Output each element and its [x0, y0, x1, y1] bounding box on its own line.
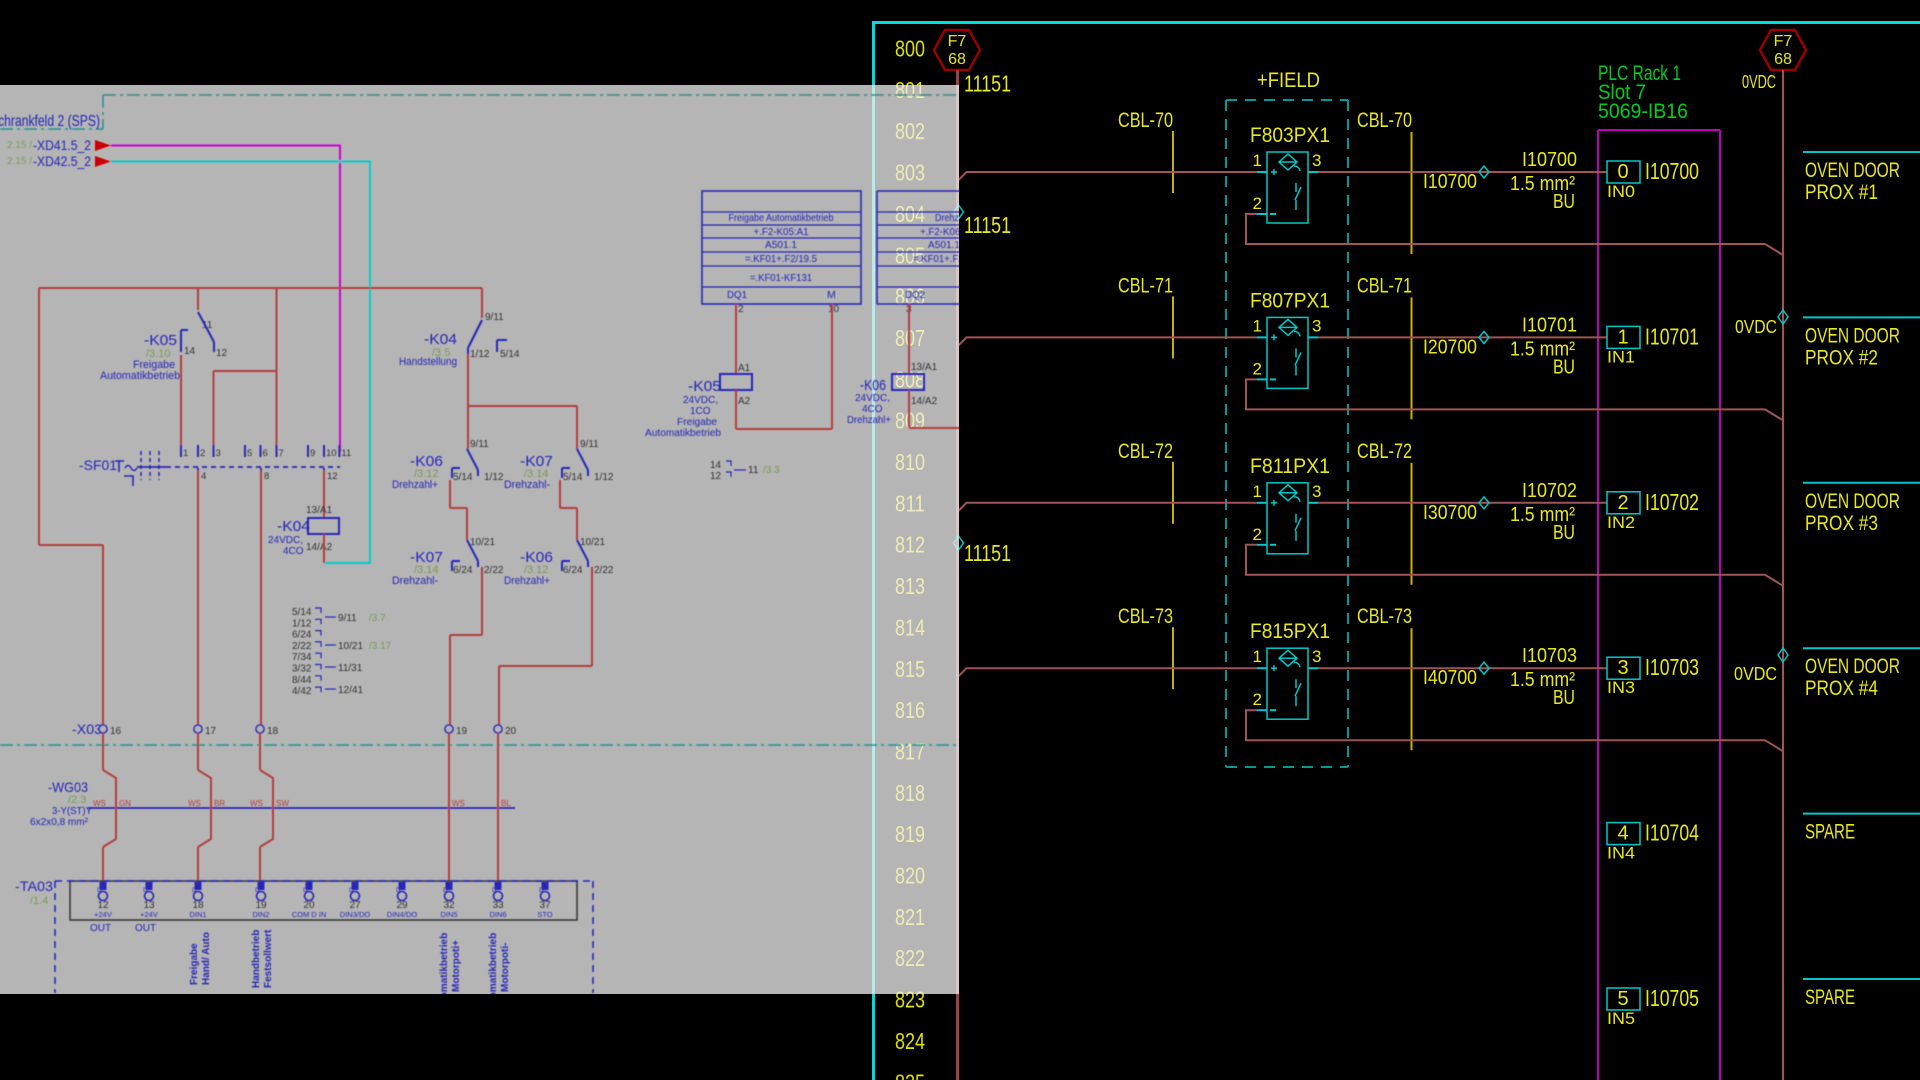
svg-text:I20700: I20700 [1423, 336, 1477, 358]
svg-text:20: 20 [505, 726, 517, 737]
svg-text:800: 800 [895, 36, 925, 62]
svg-text:I40700: I40700 [1423, 667, 1477, 689]
svg-text:/3.7: /3.7 [369, 613, 386, 624]
svg-text:-K06: -K06 [860, 377, 886, 394]
svg-text:F811PX1: F811PX1 [1250, 455, 1330, 478]
svg-text:19: 19 [456, 726, 468, 737]
svg-text:SW: SW [276, 799, 289, 808]
svg-text:1: 1 [1253, 316, 1262, 335]
svg-text:824: 824 [895, 1028, 925, 1054]
svg-text:Automatikbetrieb: Automatikbetrieb [100, 370, 180, 382]
svg-text:8: 8 [264, 471, 269, 482]
svg-text:I10703: I10703 [1645, 654, 1699, 680]
svg-text:11: 11 [341, 448, 351, 459]
svg-text:I10705: I10705 [1645, 985, 1699, 1011]
svg-text:11/31: 11/31 [338, 663, 363, 674]
svg-text:8/44: 8/44 [292, 675, 312, 686]
svg-text:11151: 11151 [964, 71, 1011, 97]
svg-text:9/11: 9/11 [580, 439, 599, 450]
svg-text:Freigabe: Freigabe [189, 943, 200, 985]
svg-text:Drehzahl-: Drehzahl- [504, 479, 550, 491]
svg-text:14/A2: 14/A2 [306, 542, 333, 553]
svg-text:I10700: I10700 [1522, 149, 1577, 171]
svg-text:D: D [349, 888, 354, 894]
svg-text:-WG03: -WG03 [48, 779, 88, 795]
svg-text:12/41: 12/41 [338, 685, 363, 696]
svg-text:CBL-72: CBL-72 [1357, 440, 1412, 463]
svg-text:2.15 /: 2.15 / [7, 156, 32, 167]
svg-text:Hand/ Auto: Hand/ Auto [201, 932, 212, 985]
svg-text:17: 17 [205, 726, 217, 737]
svg-text:D: D [97, 888, 102, 894]
svg-text:CBL-71: CBL-71 [1357, 274, 1412, 297]
svg-text:D: D [443, 888, 448, 894]
svg-text:BU: BU [1553, 522, 1575, 544]
svg-text:DIN4/DO: DIN4/DO [387, 910, 418, 919]
svg-text:WS: WS [188, 799, 201, 808]
svg-text:12: 12 [216, 348, 228, 359]
svg-text:-XD41.5_2: -XD41.5_2 [33, 137, 91, 153]
svg-text:I10702: I10702 [1522, 480, 1577, 502]
svg-text:F7: F7 [948, 33, 967, 50]
svg-text:2: 2 [1253, 359, 1262, 378]
svg-text:CBL-71: CBL-71 [1118, 274, 1173, 297]
svg-text:+FIELD: +FIELD [1257, 69, 1320, 92]
svg-text:0VDC: 0VDC [1735, 317, 1777, 337]
svg-text:16: 16 [110, 726, 122, 737]
svg-text:11: 11 [748, 465, 759, 476]
svg-text:1: 1 [183, 448, 188, 459]
svg-text:OVEN DOOR: OVEN DOOR [1805, 324, 1900, 347]
svg-text:F7: F7 [1774, 33, 1793, 50]
svg-text:/1.4: /1.4 [30, 895, 48, 907]
svg-text:OVEN DOOR: OVEN DOOR [1805, 655, 1900, 678]
svg-text:DIN6: DIN6 [489, 910, 506, 919]
svg-text:Drehzahl+: Drehzahl+ [392, 479, 438, 491]
svg-text:2.15 /: 2.15 / [7, 140, 32, 151]
svg-text:=.KF01-KF131: =.KF01-KF131 [750, 272, 812, 284]
svg-text:14/A2: 14/A2 [911, 396, 938, 407]
svg-text:-X03: -X03 [72, 721, 102, 737]
svg-text:68: 68 [948, 51, 966, 68]
svg-text:D: D [396, 888, 401, 894]
svg-text:3/32: 3/32 [292, 664, 312, 675]
svg-text:12: 12 [710, 471, 722, 482]
svg-text:DQ2: DQ2 [905, 289, 925, 301]
svg-text:M: M [827, 289, 836, 301]
svg-text:DIN1: DIN1 [189, 910, 206, 919]
svg-text:7: 7 [279, 448, 284, 459]
svg-text:24VDC,: 24VDC, [855, 393, 890, 404]
svg-text:schrankfeld 2 (SPS): schrankfeld 2 (SPS) [0, 113, 100, 130]
svg-text:2: 2 [738, 304, 744, 315]
svg-text:CBL-70: CBL-70 [1118, 109, 1173, 132]
svg-text:I10704: I10704 [1645, 820, 1699, 846]
svg-text:1CO: 1CO [690, 406, 711, 417]
svg-text:14: 14 [184, 346, 196, 357]
svg-text:10/21: 10/21 [338, 641, 363, 652]
svg-text:3: 3 [216, 448, 221, 459]
svg-text:24VDC,: 24VDC, [268, 535, 303, 546]
svg-text:2/22: 2/22 [484, 565, 504, 576]
svg-text:5069-IB16: 5069-IB16 [1598, 100, 1688, 123]
svg-text:SPARE: SPARE [1805, 821, 1855, 844]
svg-text:1: 1 [1617, 326, 1628, 348]
svg-text:3-Y(ST)Y: 3-Y(ST)Y [52, 806, 92, 817]
svg-text:1/12: 1/12 [470, 349, 490, 360]
svg-text:D: D [255, 888, 260, 894]
svg-text:IN4: IN4 [1607, 844, 1635, 863]
svg-text:5/14: 5/14 [563, 472, 583, 483]
svg-text:CBL-72: CBL-72 [1118, 440, 1173, 463]
svg-text:6/24: 6/24 [563, 565, 583, 576]
svg-text:-K04: -K04 [424, 331, 457, 348]
svg-text:5/14: 5/14 [500, 349, 520, 360]
svg-text:D: D [143, 888, 148, 894]
svg-text:PROX #2: PROX #2 [1805, 346, 1878, 369]
svg-text:0VDC: 0VDC [1742, 72, 1776, 92]
svg-text:14: 14 [710, 460, 722, 471]
svg-text:5/14: 5/14 [453, 472, 473, 483]
svg-text:68: 68 [1774, 51, 1792, 68]
svg-text:I10700: I10700 [1645, 158, 1699, 184]
svg-text:OUT: OUT [135, 923, 156, 934]
svg-text:1: 1 [1253, 482, 1262, 501]
svg-text:13/A1: 13/A1 [306, 505, 333, 516]
svg-text:I10702: I10702 [1645, 489, 1699, 515]
svg-text:11151: 11151 [964, 540, 1011, 566]
svg-text:D: D [492, 888, 497, 894]
svg-text:Motorpoti+: Motorpoti+ [451, 940, 462, 992]
svg-text:Festsollwert: Festsollwert [263, 929, 274, 988]
svg-text:PROX #4: PROX #4 [1805, 677, 1878, 700]
svg-text:5: 5 [247, 448, 252, 459]
svg-text:3: 3 [1312, 316, 1321, 335]
svg-text:-XD42.5_2: -XD42.5_2 [33, 153, 91, 169]
svg-text:4CO: 4CO [862, 404, 883, 415]
svg-text:WS: WS [452, 799, 465, 808]
svg-text:OVEN DOOR: OVEN DOOR [1805, 159, 1900, 182]
svg-text:6/24: 6/24 [453, 565, 473, 576]
svg-text:STO: STO [537, 910, 552, 919]
svg-text:I10701: I10701 [1522, 314, 1577, 336]
svg-text:/3.17: /3.17 [369, 641, 392, 652]
svg-text:A2: A2 [738, 396, 751, 407]
svg-text:A1: A1 [738, 363, 751, 374]
svg-text:7/34: 7/34 [292, 652, 312, 663]
svg-text:Drehzahl+: Drehzahl+ [504, 575, 550, 587]
svg-text:Drehzahl+: Drehzahl+ [847, 415, 891, 426]
svg-text:F807PX1: F807PX1 [1250, 289, 1330, 312]
svg-text:Handbetrieb: Handbetrieb [251, 930, 262, 988]
svg-text:I30700: I30700 [1423, 502, 1477, 524]
svg-text:6x2x0,8 mm²: 6x2x0,8 mm² [30, 817, 89, 828]
svg-text:DIN3/DO: DIN3/DO [340, 910, 371, 919]
svg-text:4: 4 [201, 471, 206, 482]
svg-text:IN1: IN1 [1607, 347, 1635, 366]
svg-text:BU: BU [1553, 687, 1575, 709]
svg-text:A501.1: A501.1 [928, 239, 960, 251]
svg-text:2: 2 [1253, 525, 1262, 544]
svg-text:D: D [303, 888, 308, 894]
svg-text:18: 18 [267, 726, 279, 737]
svg-text:OVEN DOOR: OVEN DOOR [1805, 490, 1900, 513]
svg-text:10/21: 10/21 [470, 537, 495, 548]
svg-text:A501.1: A501.1 [765, 239, 797, 251]
svg-text:12: 12 [327, 471, 338, 482]
svg-text:F803PX1: F803PX1 [1250, 124, 1330, 147]
svg-text:2: 2 [1617, 492, 1628, 514]
svg-text:24VDC,: 24VDC, [683, 395, 718, 406]
svg-text:9/11: 9/11 [485, 312, 504, 323]
svg-text:1/12: 1/12 [292, 618, 312, 629]
svg-text:2: 2 [1253, 690, 1262, 709]
svg-text:GN: GN [119, 799, 131, 808]
svg-text:1/12: 1/12 [594, 472, 614, 483]
svg-text:-TA03: -TA03 [15, 878, 53, 894]
svg-text:1: 1 [1253, 647, 1262, 666]
svg-text:11151: 11151 [964, 212, 1011, 238]
svg-text:-K04: -K04 [277, 518, 310, 535]
svg-text:SPARE: SPARE [1805, 986, 1855, 1009]
svg-text:1/12: 1/12 [484, 472, 504, 483]
svg-text:5/14: 5/14 [292, 607, 312, 618]
svg-text:Freigabe Automatikbetrieb: Freigabe Automatikbetrieb [729, 212, 834, 224]
svg-text:I10700: I10700 [1423, 171, 1477, 193]
svg-text:D: D [192, 888, 197, 894]
svg-text:Handstellung: Handstellung [399, 356, 457, 368]
svg-text:2/22: 2/22 [594, 565, 614, 576]
svg-text:0: 0 [1617, 161, 1628, 183]
svg-text:3: 3 [1312, 482, 1321, 501]
svg-text:BU: BU [1553, 191, 1575, 213]
svg-text:IN0: IN0 [1607, 182, 1635, 201]
svg-text:BR: BR [214, 799, 225, 808]
svg-text:2: 2 [200, 448, 205, 459]
svg-text:Motorpoti-: Motorpoti- [500, 943, 511, 992]
svg-text:DIN2: DIN2 [252, 910, 269, 919]
svg-text:9: 9 [310, 448, 315, 459]
svg-text:9/11: 9/11 [470, 439, 489, 450]
svg-text:-K05: -K05 [688, 378, 721, 395]
svg-text:-K05: -K05 [144, 332, 177, 349]
svg-text:10: 10 [828, 304, 840, 315]
svg-text:+.F2-K05:A1: +.F2-K05:A1 [754, 226, 809, 238]
svg-text:F815PX1: F815PX1 [1250, 620, 1330, 643]
svg-text:-SF01: -SF01 [79, 457, 117, 473]
svg-text:6: 6 [263, 448, 268, 459]
svg-text:D: D [539, 888, 544, 894]
svg-text:I10703: I10703 [1522, 645, 1577, 667]
svg-text:Drehzahl-: Drehzahl- [392, 575, 438, 587]
svg-text:WS: WS [93, 799, 106, 808]
svg-text:Automatikbetrieb: Automatikbetrieb [645, 428, 721, 439]
svg-text:3: 3 [1312, 647, 1321, 666]
svg-text:BU: BU [1553, 356, 1575, 378]
svg-text:CBL-73: CBL-73 [1118, 605, 1173, 628]
svg-text:2/22: 2/22 [292, 641, 312, 652]
svg-text:Freigabe: Freigabe [677, 417, 717, 428]
svg-text:4CO: 4CO [283, 546, 304, 557]
svg-text:13/A1: 13/A1 [911, 362, 938, 373]
svg-text:=.KF01+.F2/19.5: =.KF01+.F2/19.5 [745, 253, 817, 265]
svg-text:CBL-70: CBL-70 [1357, 109, 1412, 132]
svg-text:4: 4 [1617, 823, 1628, 845]
svg-text:I10701: I10701 [1645, 323, 1699, 349]
svg-text:3: 3 [1617, 657, 1628, 679]
svg-text:OUT: OUT [90, 923, 111, 934]
svg-text:9/11: 9/11 [338, 613, 357, 624]
svg-text:DIN5: DIN5 [440, 910, 457, 919]
svg-text:PROX #3: PROX #3 [1805, 512, 1878, 535]
svg-text:BL: BL [501, 799, 511, 808]
svg-text:5: 5 [1617, 988, 1628, 1010]
svg-text:WS: WS [250, 799, 263, 808]
svg-text:825: 825 [895, 1069, 925, 1080]
svg-text:CBL-73: CBL-73 [1357, 605, 1412, 628]
svg-text:+24V: +24V [140, 910, 158, 919]
svg-text:COM D IN: COM D IN [292, 910, 327, 919]
svg-text:10/21: 10/21 [580, 537, 605, 548]
svg-text:/3.3: /3.3 [763, 465, 780, 476]
svg-text:PROX #1: PROX #1 [1805, 181, 1878, 204]
svg-text:IN3: IN3 [1607, 678, 1635, 697]
svg-text:+24V: +24V [94, 910, 112, 919]
svg-text:2: 2 [1253, 194, 1262, 213]
svg-text:0VDC: 0VDC [1734, 664, 1777, 684]
svg-text:IN5: IN5 [1607, 1009, 1635, 1028]
svg-text:3: 3 [1312, 151, 1321, 170]
svg-text:IN2: IN2 [1607, 513, 1635, 532]
svg-text:DQ1: DQ1 [727, 289, 747, 301]
svg-text:/2.3: /2.3 [68, 794, 86, 806]
svg-text:1: 1 [1253, 151, 1262, 170]
svg-text:10: 10 [326, 448, 337, 459]
svg-text:6/24: 6/24 [292, 630, 312, 641]
svg-text:4/42: 4/42 [292, 686, 312, 697]
